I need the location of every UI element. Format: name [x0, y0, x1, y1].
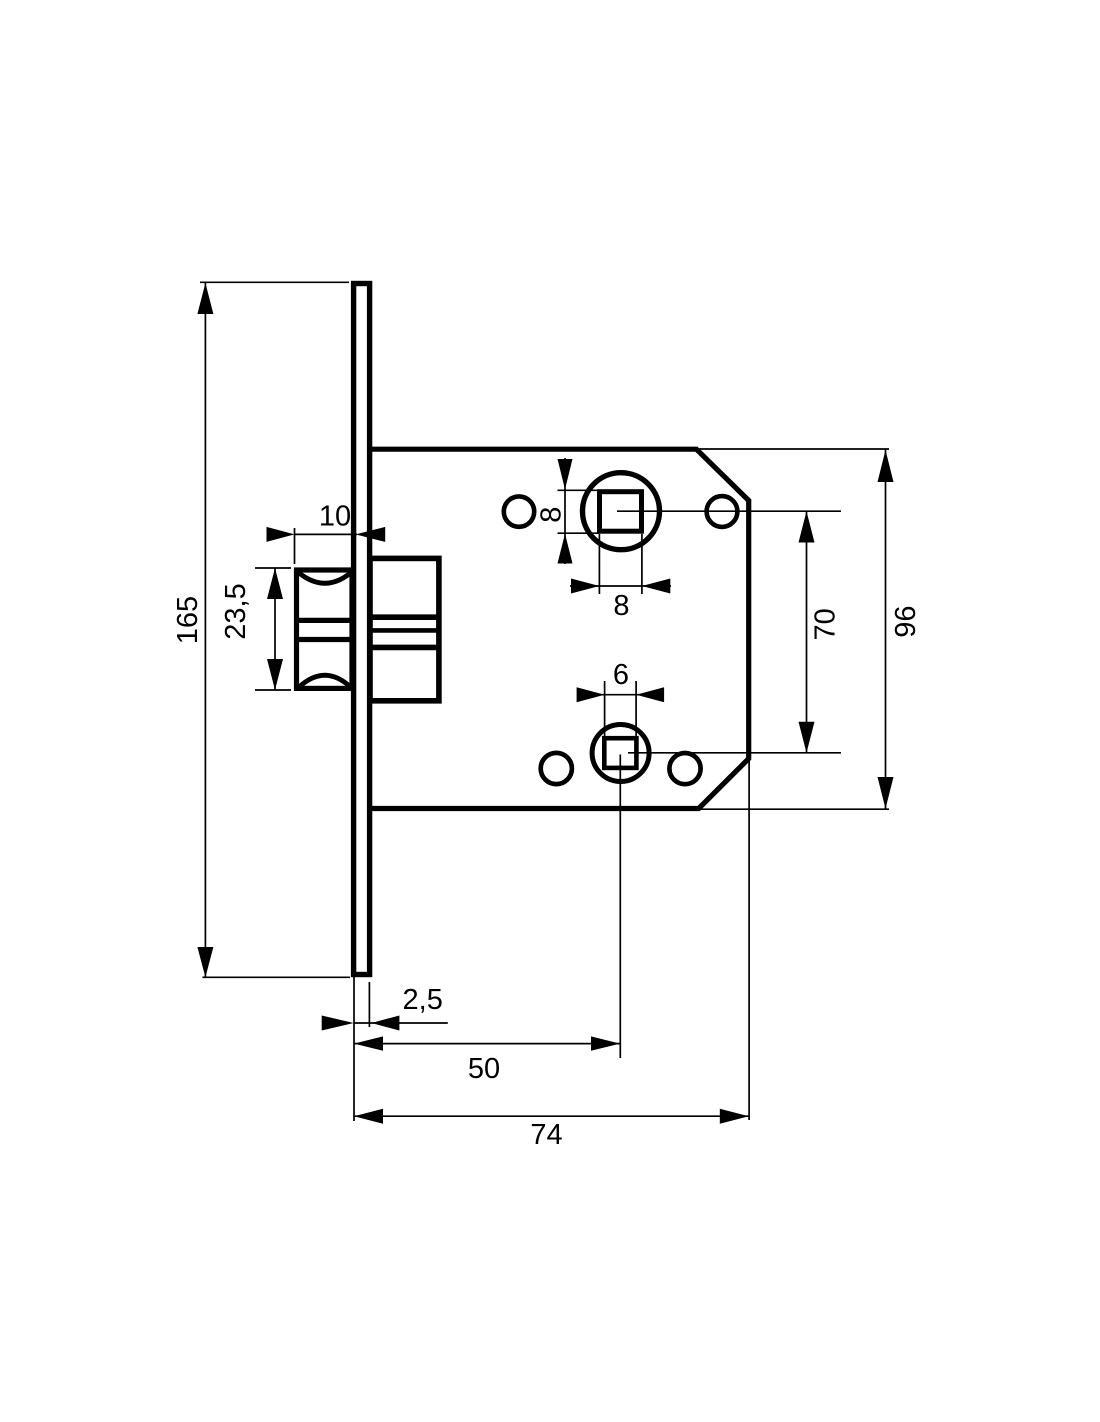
- svg-text:70: 70: [809, 608, 841, 640]
- svg-text:8: 8: [536, 507, 568, 523]
- svg-text:96: 96: [890, 605, 922, 637]
- svg-text:2,5: 2,5: [403, 984, 443, 1016]
- svg-text:23,5: 23,5: [220, 583, 252, 639]
- svg-text:50: 50: [468, 1053, 500, 1085]
- svg-text:10: 10: [319, 501, 351, 533]
- svg-text:6: 6: [613, 659, 629, 691]
- svg-text:165: 165: [172, 596, 204, 644]
- svg-text:74: 74: [530, 1119, 562, 1151]
- svg-text:8: 8: [613, 590, 629, 622]
